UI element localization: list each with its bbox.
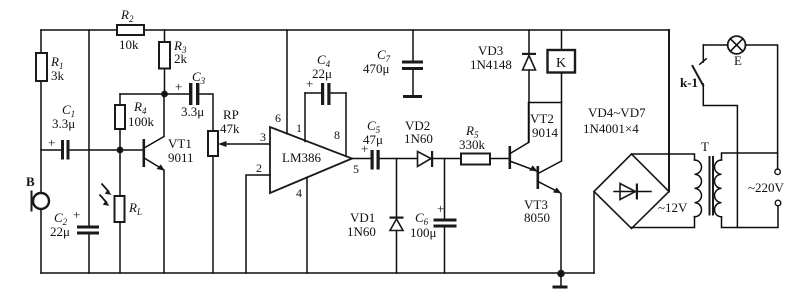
wire AC top	[632, 154, 695, 160]
wire DC+ right vertical	[668, 30, 670, 192]
wire AC bottom	[632, 217, 695, 228]
svg-text:~12V: ~12V	[658, 200, 688, 215]
potentiometer RP	[208, 107, 270, 273]
svg-text:+: +	[73, 207, 80, 222]
transformer T	[695, 139, 722, 217]
svg-text:100μ: 100μ	[410, 225, 437, 240]
svg-text:330k: 330k	[459, 137, 486, 152]
capacitor C3	[165, 69, 214, 131]
pin 8	[334, 93, 346, 156]
microphone B	[26, 174, 49, 212]
svg-text:E: E	[734, 53, 742, 68]
svg-text:10k: 10k	[119, 37, 139, 52]
capacitor C5	[361, 118, 418, 170]
op-amp U1 LM386	[270, 127, 352, 193]
svg-text:+: +	[175, 79, 182, 94]
wire k-1 branch	[703, 84, 737, 228]
lamp E	[728, 36, 746, 68]
bridge rectifier VD4-VD7	[594, 154, 688, 229]
svg-text:3.3μ: 3.3μ	[181, 104, 204, 119]
wire primary bottom	[722, 206, 779, 228]
svg-text:LM386: LM386	[282, 150, 322, 165]
svg-text:VD4~VD7: VD4~VD7	[588, 105, 646, 120]
capacitor C6	[410, 159, 457, 274]
node emitter ground junction	[557, 270, 565, 278]
relay K	[548, 30, 576, 73]
svg-text:5: 5	[353, 162, 359, 176]
svg-text:VT2: VT2	[530, 111, 554, 126]
pin 5	[352, 159, 371, 177]
svg-text:RP: RP	[223, 107, 239, 122]
svg-text:1N4001×4: 1N4001×4	[583, 121, 639, 136]
svg-text:22μ: 22μ	[50, 224, 70, 239]
svg-text:+: +	[437, 201, 444, 216]
svg-text:K: K	[556, 56, 566, 71]
svg-text:T: T	[701, 139, 709, 154]
terminal upper	[775, 169, 781, 175]
svg-text:~220V: ~220V	[748, 180, 785, 195]
diode VD1	[347, 159, 404, 274]
svg-text:+: +	[48, 135, 55, 150]
resistor R1	[36, 53, 65, 83]
svg-text:6: 6	[275, 111, 281, 125]
diode VD2	[404, 118, 461, 167]
pin 2	[246, 161, 270, 273]
svg-text:47k: 47k	[220, 121, 240, 136]
svg-text:3.3μ: 3.3μ	[52, 116, 75, 131]
wire bottom rail	[41, 272, 594, 274]
capacitor C7 470u	[363, 30, 423, 98]
node base junction	[117, 147, 124, 154]
svg-text:8050: 8050	[524, 210, 550, 225]
svg-text:1N60: 1N60	[404, 131, 433, 146]
svg-text:3: 3	[260, 130, 266, 144]
capacitor C1	[41, 102, 143, 160]
transistor VT1	[143, 94, 194, 273]
svg-text:1N4148: 1N4148	[470, 57, 512, 72]
capacitor C2	[50, 207, 99, 239]
resistor R4	[115, 94, 155, 150]
svg-text:2k: 2k	[174, 51, 188, 66]
wire lamp left	[703, 44, 727, 46]
terminal lower	[775, 200, 781, 206]
pin 6	[275, 30, 287, 134]
svg-text:B: B	[26, 174, 35, 189]
svg-text:4: 4	[296, 186, 302, 200]
svg-text:22μ: 22μ	[312, 66, 332, 81]
label VD4-VD7	[583, 105, 646, 136]
wire R4 top	[120, 93, 165, 95]
wire top rail	[41, 29, 669, 31]
wire C2 branch vertical	[88, 30, 90, 273]
svg-text:VD1: VD1	[350, 210, 375, 225]
wire lamp right	[746, 45, 778, 169]
svg-text:1: 1	[296, 121, 302, 135]
pin 3	[260, 130, 266, 144]
ground	[553, 274, 568, 289]
pin 1	[296, 93, 305, 142]
label 220V	[748, 180, 785, 195]
svg-text:1N60: 1N60	[347, 224, 376, 239]
diode VD3	[470, 30, 536, 142]
wire primary top	[722, 153, 778, 160]
svg-text:k-1: k-1	[680, 75, 698, 90]
transistor VT3	[524, 73, 562, 274]
svg-text:9014: 9014	[532, 125, 559, 140]
wire left rail	[40, 30, 42, 273]
svg-text:3k: 3k	[51, 68, 65, 83]
svg-text:9011: 9011	[168, 150, 194, 165]
pin 4	[296, 178, 307, 274]
svg-text:470μ: 470μ	[363, 61, 390, 76]
capacitor C4	[305, 52, 346, 105]
svg-text:47μ: 47μ	[363, 132, 383, 147]
photoresistor RL	[100, 150, 142, 273]
wire bridge minus vertical	[593, 192, 595, 274]
resistor R5	[459, 123, 509, 165]
svg-text:8: 8	[334, 128, 340, 142]
svg-text:VT1: VT1	[168, 136, 192, 151]
svg-text:VD3: VD3	[478, 43, 503, 58]
resistor R2	[117, 7, 144, 52]
switch k-1	[680, 45, 706, 90]
transistor VT2	[509, 103, 559, 172]
node collector junction	[161, 91, 168, 98]
svg-text:100k: 100k	[128, 114, 155, 129]
wire VD3 to K	[529, 102, 562, 104]
resistor R3	[159, 30, 188, 94]
svg-text:2: 2	[256, 161, 262, 175]
